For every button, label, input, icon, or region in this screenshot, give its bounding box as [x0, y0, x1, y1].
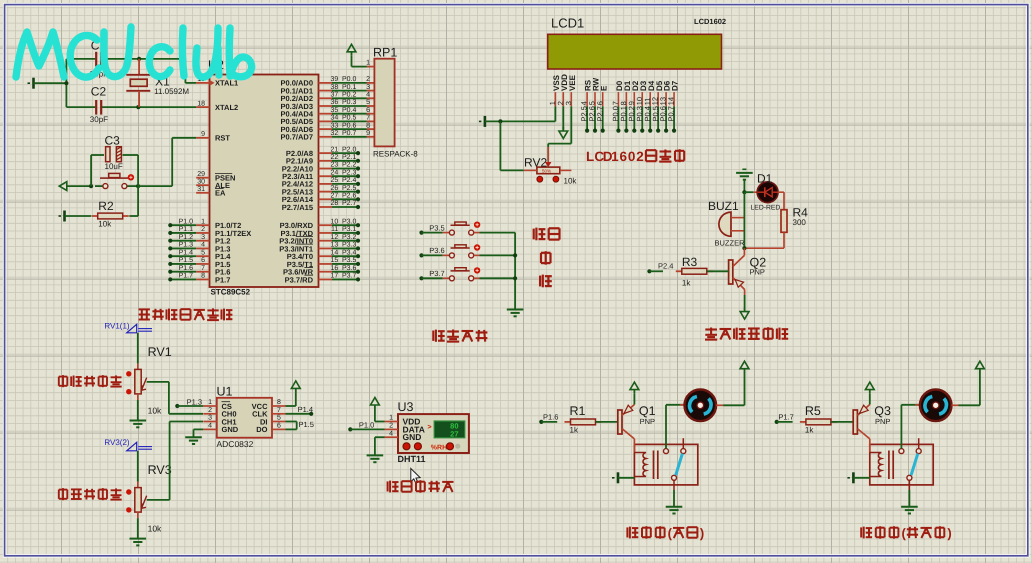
svg-text:P0.0: P0.0: [342, 76, 357, 83]
svg-text:DHT11: DHT11: [398, 454, 426, 464]
svg-text:P3.7/RD: P3.7/RD: [285, 275, 314, 284]
svg-text:9: 9: [366, 130, 370, 137]
svg-text:Q1: Q1: [639, 404, 656, 418]
svg-text:5: 5: [277, 415, 281, 422]
P1.3 net terminal to ADC CS: [175, 397, 203, 408]
svg-text:>: >: [428, 424, 432, 431]
reset rail arrow terminal: [59, 182, 91, 191]
svg-text:3: 3: [208, 415, 212, 422]
svg-text:XTAL1: XTAL1: [215, 79, 238, 88]
svg-text:P2.7/A15: P2.7/A15: [282, 203, 313, 212]
svg-text:P2.3: P2.3: [342, 169, 357, 176]
LCD data/control net terminals: [580, 106, 676, 133]
svg-text:6: 6: [595, 101, 604, 105]
svg-text:U1: U1: [217, 385, 233, 399]
net flag RV3(2): [104, 438, 152, 451]
svg-text:1k: 1k: [682, 278, 691, 287]
svg-text:6: 6: [366, 107, 370, 114]
svg-text:7: 7: [277, 407, 281, 414]
svg-text:7: 7: [201, 265, 205, 272]
svg-text:10k: 10k: [564, 177, 578, 186]
svg-text:C3: C3: [105, 133, 121, 147]
svg-text:DO: DO: [256, 425, 267, 434]
svg-text:RV3: RV3: [148, 463, 172, 477]
chip left pin stubs with numbers: [196, 76, 209, 280]
capacitor C1 30pF: [66, 38, 139, 78]
capacitor C3 10uF: [91, 133, 138, 186]
svg-text:): ): [947, 525, 951, 540]
svg-text:50%: 50%: [542, 169, 551, 174]
ground rail at relay coil fan: [612, 472, 634, 483]
relay common ground fan: [666, 490, 683, 514]
P2.4 net terminal: [647, 262, 673, 274]
red label shengguang baojing dianlu: [705, 327, 788, 340]
svg-text:8: 8: [277, 399, 281, 406]
relay coil and box fan: [634, 439, 697, 485]
svg-text:Q3: Q3: [874, 404, 891, 418]
svg-text:8: 8: [201, 273, 205, 280]
svg-text:0: 0: [628, 149, 636, 164]
svg-text:BUZ1: BUZ1: [708, 199, 739, 213]
ADC U1 ADC0832 body: [203, 385, 285, 449]
LCD pin stubs and rotated pin names: [548, 74, 680, 106]
svg-text:2: 2: [208, 407, 212, 414]
svg-text:P2.5: P2.5: [342, 185, 357, 192]
svg-text:P1.4: P1.4: [179, 249, 194, 256]
potentiometer RV3 10k: [126, 451, 172, 534]
keys common bus wire: [513, 233, 517, 303]
svg-text:R3: R3: [682, 255, 698, 269]
resistor R3 1k: [676, 255, 713, 287]
chip name STC89C52: [211, 288, 251, 297]
svg-text:(: (: [901, 525, 906, 540]
P1.6 net terminal: [539, 412, 558, 424]
motor power wire and arrow purifier: [959, 361, 985, 405]
wire R5 to Q3 base: [831, 421, 853, 423]
svg-text:D1: D1: [757, 171, 773, 185]
P3 net stubs right of chip: [332, 218, 360, 281]
svg-text:R1: R1: [570, 404, 586, 418]
transistor Q3 PNP: [853, 404, 891, 439]
resistor R4 300: [744, 192, 808, 248]
svg-text:RV2: RV2: [524, 155, 547, 169]
svg-text:P3.4: P3.4: [342, 249, 357, 256]
wire relay NO contact to motor fan: [666, 405, 684, 449]
svg-text:27: 27: [450, 429, 458, 438]
svg-text:P3.1: P3.1: [342, 226, 357, 233]
svg-text:P2.4: P2.4: [658, 262, 673, 271]
buzzer BUZ1: [708, 199, 745, 248]
red label jiawan zhi tiaojie: [59, 375, 122, 387]
resistor R2 10k: [92, 186, 138, 228]
wire LCD VEE to potentiometer RV2: [548, 106, 571, 160]
svg-text:P3.5: P3.5: [429, 223, 444, 232]
svg-text:P0.7: P0.7: [342, 130, 357, 137]
node junction alarm top: [742, 190, 746, 194]
svg-text:8: 8: [366, 122, 370, 129]
red label duli anjian: [433, 330, 487, 342]
red label danpianji zuixiao xitong: [139, 308, 233, 320]
svg-text:14: 14: [667, 97, 676, 105]
wire relay NO contact to motor purifier: [901, 405, 919, 449]
svg-text:P1.5: P1.5: [179, 257, 194, 264]
svg-text:EA: EA: [215, 189, 226, 198]
svg-text:P1.7: P1.7: [179, 273, 194, 280]
svg-text:P3.7: P3.7: [342, 273, 357, 280]
svg-text:5: 5: [366, 99, 370, 106]
ADC VCC power arrow: [286, 381, 301, 406]
svg-text:P2.7: P2.7: [342, 200, 357, 207]
svg-text:P3.6: P3.6: [429, 246, 444, 255]
svg-text:LCD1602: LCD1602: [694, 17, 726, 26]
wire LCD VSS to ground: [485, 106, 556, 123]
wire R1 to Q1 base: [596, 421, 618, 423]
transistor Q2 PNP: [729, 248, 767, 295]
svg-text:3: 3: [366, 84, 370, 91]
potentiometer RV1 10k: [126, 333, 172, 416]
ground under RV1: [130, 400, 147, 427]
svg-text:P3.6: P3.6: [342, 265, 357, 272]
svg-text:3: 3: [201, 234, 205, 241]
red label jian: [540, 275, 552, 288]
P1 net stubs left of chip: [168, 218, 196, 281]
chip reference U2: [208, 58, 224, 72]
svg-text:U3: U3: [398, 400, 414, 414]
red label jidianqi fengshan: [627, 525, 704, 540]
DHT11 U3 body: [385, 400, 469, 464]
transistor Q1 PNP: [618, 404, 656, 439]
svg-text:6: 6: [277, 423, 281, 430]
svg-text:P1.6: P1.6: [543, 412, 558, 421]
resistor R1 1k: [565, 404, 602, 434]
relay switch blade fan: [676, 454, 683, 476]
svg-text:LED-RED: LED-RED: [751, 205, 781, 212]
relay common ground purifier: [901, 490, 918, 514]
microcontroller U2 STC89C52 body: [210, 75, 319, 288]
svg-text:P2.0: P2.0: [342, 146, 357, 153]
svg-text:2: 2: [201, 226, 205, 233]
svg-text:P1.0: P1.0: [359, 421, 374, 430]
reset node junction B: [136, 155, 140, 188]
svg-text:RP1: RP1: [373, 46, 397, 60]
reset rail junction A: [89, 184, 93, 188]
resistor pack RP1 RESPACK-8: [366, 46, 418, 159]
svg-text:P2.6: P2.6: [342, 193, 357, 200]
svg-text:VEE: VEE: [568, 74, 577, 91]
red label jiaquan zhi tiaojie: [59, 488, 122, 500]
relay coil and box purifier: [870, 439, 933, 485]
svg-text:1k: 1k: [805, 425, 814, 434]
motor purifier: [915, 390, 958, 422]
svg-text:10k: 10k: [148, 524, 162, 534]
ground rail symbol left of LCD: [479, 116, 485, 127]
wire C2 to XTAL2: [136, 105, 196, 109]
svg-text:P1.3: P1.3: [187, 397, 202, 406]
svg-text:%RH: %RH: [431, 444, 447, 451]
motor power wire and arrow fan: [723, 361, 749, 405]
red label LCD1602xianshiping: [586, 149, 684, 164]
wire RV1 wiper to ADC CH0: [147, 382, 203, 414]
svg-text:PNP: PNP: [640, 417, 655, 426]
relay contacts fan: [664, 438, 686, 490]
ground rail symbol left of C1: [28, 78, 34, 89]
svg-text:1: 1: [389, 415, 393, 422]
svg-text:P1.6: P1.6: [179, 265, 194, 272]
svg-text:D7: D7: [671, 80, 680, 91]
svg-text:6: 6: [619, 149, 627, 164]
svg-text:1: 1: [366, 60, 370, 67]
ground under keys: [507, 303, 524, 317]
svg-text:29: 29: [197, 171, 205, 178]
svg-text:RV1(1): RV1(1): [104, 321, 130, 330]
svg-text:GND: GND: [222, 425, 239, 434]
net flag RV1(1): [104, 321, 152, 333]
svg-text:1: 1: [611, 149, 619, 164]
svg-text:P0.2: P0.2: [342, 92, 357, 99]
P1.7 net terminal: [775, 412, 794, 424]
svg-text:P2.7: P2.7: [595, 106, 604, 121]
red label jidianqi jinghuaqi: [861, 525, 952, 540]
capacitor C2 30pF: [66, 85, 138, 124]
LCD1 display LCD1602: [548, 16, 726, 70]
svg-text:10uF: 10uF: [105, 162, 123, 171]
ground rail at relay coil purifier: [847, 472, 869, 483]
svg-text:P2.4: P2.4: [342, 177, 357, 184]
svg-text:P0.6: P0.6: [342, 122, 357, 129]
svg-text:P0.7/AD7: P0.7/AD7: [280, 133, 313, 142]
svg-text:L: L: [586, 149, 594, 164]
ground under RV3: [130, 518, 147, 545]
wire reset to RST pin: [138, 138, 196, 186]
svg-text:P2.2: P2.2: [342, 162, 357, 169]
svg-text:GND: GND: [403, 432, 422, 442]
svg-text:P1.3: P1.3: [179, 242, 194, 249]
svg-text:PNP: PNP: [750, 267, 765, 276]
svg-text:P0.3: P0.3: [342, 99, 357, 106]
reset push button: [95, 173, 138, 188]
LED D1 LED-RED: [744, 171, 780, 211]
red label shezhi: [534, 228, 560, 241]
svg-text:P1.0: P1.0: [179, 218, 194, 225]
P2 net stubs right of chip: [332, 146, 360, 209]
svg-text:31: 31: [197, 186, 205, 193]
DHT11 VDD power arrow: [371, 398, 385, 422]
LCD VDD power down arrow: [559, 106, 568, 138]
P0 net wires to resistor pack: [332, 76, 374, 137]
svg-text:E: E: [599, 85, 608, 91]
svg-text:P3.5: P3.5: [342, 257, 357, 264]
ADC GND ground: [185, 429, 203, 444]
svg-text:30pF: 30pF: [90, 115, 108, 124]
svg-text:300: 300: [793, 218, 807, 227]
svg-text:): ): [700, 525, 704, 540]
independent keys group: [419, 222, 515, 281]
relay contacts purifier: [899, 438, 921, 490]
svg-text:RESPACK-8: RESPACK-8: [373, 149, 418, 158]
Q2 emitter power down arrow: [740, 295, 749, 319]
red label jia: [541, 251, 551, 265]
svg-text:3: 3: [564, 101, 573, 105]
svg-text:P0.7: P0.7: [667, 106, 676, 121]
P1.5 net from ADC DI DO: [286, 420, 314, 430]
wire R3 to Q2 base: [700, 270, 729, 272]
svg-text:4: 4: [389, 430, 393, 437]
svg-text:1k: 1k: [570, 425, 579, 434]
svg-text:4: 4: [201, 242, 205, 249]
svg-text:P1.5: P1.5: [299, 420, 314, 429]
svg-text:R5: R5: [805, 404, 821, 418]
svg-text:BUZZER: BUZZER: [715, 238, 746, 247]
svg-text:P2.1: P2.1: [342, 154, 357, 161]
svg-text:C2: C2: [91, 85, 107, 99]
svg-text:1: 1: [208, 399, 212, 406]
svg-text:11.0592M: 11.0592M: [154, 87, 189, 96]
svg-text:P1.2: P1.2: [179, 234, 194, 241]
svg-text:P3.3: P3.3: [342, 242, 357, 249]
svg-text:4: 4: [366, 92, 370, 99]
chip right pin stubs with numbers: [319, 76, 339, 280]
svg-text:2: 2: [636, 149, 644, 164]
mouse cursor arrow: [411, 469, 420, 484]
wire C1 to XTAL1: [137, 57, 196, 83]
svg-text:ADC0832: ADC0832: [217, 439, 254, 449]
svg-text:P1.4: P1.4: [298, 405, 313, 414]
ground rail symbol left of R2: [59, 211, 92, 222]
svg-text:RV1: RV1: [148, 345, 172, 359]
svg-text:5: 5: [201, 249, 205, 256]
svg-text:10k: 10k: [148, 406, 162, 416]
Q1 emitter power arrow: [630, 382, 639, 404]
potentiometer RV2 10k: [524, 147, 578, 186]
svg-text:RST: RST: [215, 134, 230, 143]
svg-text:2: 2: [366, 76, 370, 83]
svg-text:PNP: PNP: [875, 417, 890, 426]
svg-text:P0.5: P0.5: [342, 115, 357, 122]
svg-text:P1.7: P1.7: [215, 275, 230, 284]
svg-text:P1.1: P1.1: [179, 226, 194, 233]
svg-text:30: 30: [197, 178, 205, 185]
svg-text:18: 18: [197, 100, 205, 107]
wire ground junction to RV2: [500, 121, 523, 170]
crystal X1 11.0592M: [126, 59, 189, 107]
power arrow above RP1: [347, 44, 367, 66]
svg-text:2: 2: [389, 423, 393, 430]
relay switch blade purifier: [911, 454, 918, 476]
svg-text:P3.2: P3.2: [342, 234, 357, 241]
P1.0 net terminal to DHT11 DATA: [348, 421, 384, 432]
svg-text:6: 6: [201, 257, 205, 264]
MCUclub cyan logo: [16, 27, 252, 77]
svg-text:R2: R2: [98, 199, 114, 213]
svg-text:RV3(2): RV3(2): [104, 438, 130, 447]
red label wenshidu mokuai: [388, 480, 454, 493]
svg-text:10k: 10k: [98, 219, 112, 228]
svg-text:9: 9: [201, 131, 205, 138]
svg-text:P0.1: P0.1: [342, 84, 357, 91]
DHT11 GND ground: [367, 437, 385, 462]
svg-text:7: 7: [366, 115, 370, 122]
wire RV3 wiper to ADC CH1: [147, 422, 203, 500]
svg-text:LCD1: LCD1: [551, 16, 584, 31]
svg-text:4: 4: [208, 423, 212, 430]
svg-text:P1.7: P1.7: [778, 412, 793, 421]
svg-text:P3.0: P3.0: [342, 218, 357, 225]
svg-text:XTAL2: XTAL2: [215, 103, 238, 112]
svg-text:STC89C52: STC89C52: [211, 288, 251, 297]
wire ground to crystal caps: [34, 59, 69, 107]
motor fan: [680, 390, 723, 422]
svg-text:1: 1: [201, 218, 205, 225]
resistor R5 1k: [800, 404, 837, 434]
alarm bus wire: [742, 192, 746, 250]
ground above alarm: [736, 169, 753, 192]
P1.4 net terminal from ADC CLK: [286, 405, 314, 416]
svg-text:P3.7: P3.7: [429, 269, 444, 278]
svg-text:P0.4: P0.4: [342, 107, 357, 114]
Q3 emitter power arrow: [865, 382, 874, 404]
svg-text:(: (: [668, 525, 673, 540]
